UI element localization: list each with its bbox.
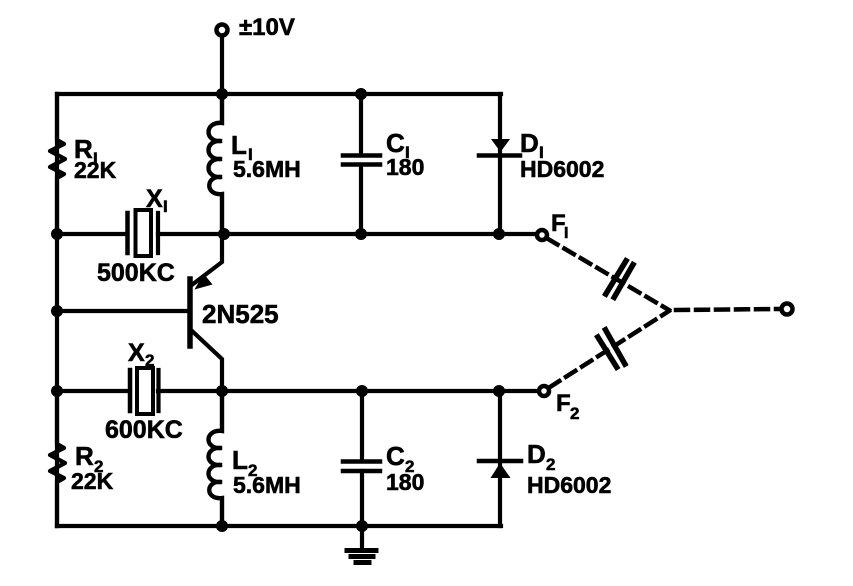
node C2 top <box>356 385 368 397</box>
transistor Q1 2N525 <box>190 234 222 391</box>
emitter lead <box>193 234 222 284</box>
node rail/F2 <box>51 385 63 397</box>
inductor L1 <box>209 94 223 234</box>
wire top rail <box>57 92 501 96</box>
wire dashed F2 to junction <box>550 311 669 387</box>
svg-text:2: 2 <box>145 351 154 370</box>
resistor R1 <box>50 94 65 234</box>
svg-text:2N525: 2N525 <box>202 299 279 329</box>
svg-text:22K: 22K <box>74 157 117 183</box>
node rail/F1 <box>51 228 63 240</box>
svg-text:±10V: ±10V <box>239 14 295 41</box>
wire F2 line right of X2 <box>158 389 538 393</box>
svg-text:600KC: 600KC <box>105 416 183 444</box>
svg-text:2: 2 <box>570 404 579 423</box>
diode D2 <box>479 391 521 526</box>
svg-text:5.6MH: 5.6MH <box>233 472 301 498</box>
terminal output <box>782 304 793 315</box>
resistor R2 <box>50 391 65 526</box>
inductor L2 <box>209 391 223 526</box>
svg-text:22K: 22K <box>71 468 114 494</box>
wire dashed F1 to junction <box>548 239 669 310</box>
node L1 bottom/emitter <box>218 228 230 240</box>
crystal X2 <box>130 368 159 414</box>
node D1 bottom <box>493 228 505 240</box>
ground <box>347 526 376 563</box>
terminal F1 <box>537 230 547 240</box>
svg-text:HD6002: HD6002 <box>527 472 611 498</box>
capacitor C2 <box>343 391 380 526</box>
wire dashed junction to output <box>676 309 780 310</box>
capacitor (slash symbol) upper <box>606 261 633 298</box>
svg-text:180: 180 <box>386 469 424 495</box>
wire left rail <box>55 94 59 526</box>
capacitor (slash symbol) lower <box>598 330 625 367</box>
terminal F2 <box>539 386 549 396</box>
svg-text:D: D <box>527 439 546 469</box>
node C1 bottom <box>355 228 367 240</box>
crystal X1 <box>128 210 159 256</box>
power terminal ±10V <box>217 25 228 36</box>
svg-text:500KC: 500KC <box>97 259 175 287</box>
diode D1 <box>479 94 520 234</box>
wire supply drop <box>220 36 224 94</box>
svg-text:F: F <box>556 390 571 417</box>
collector lead <box>191 330 222 391</box>
node collector/F2 <box>216 385 228 397</box>
svg-text:I: I <box>564 225 568 242</box>
base bar <box>187 279 193 346</box>
node ground <box>356 520 368 532</box>
node C1 top <box>355 88 367 100</box>
svg-text:X: X <box>128 339 145 367</box>
capacitor C1 <box>343 94 380 234</box>
svg-text:5.6MH: 5.6MH <box>233 156 301 182</box>
node L2 bottom <box>216 520 228 532</box>
wire base line <box>57 309 188 313</box>
svg-text:180: 180 <box>386 154 424 180</box>
node supply/L1 top <box>216 88 228 100</box>
emitter arrow <box>195 274 213 290</box>
node rail/base <box>51 305 63 317</box>
wire F1 line right of X1 <box>158 232 536 236</box>
wire F1 line <box>57 232 127 236</box>
svg-text:D: D <box>520 128 539 158</box>
svg-text:X: X <box>146 185 163 213</box>
node D2 top <box>493 385 505 397</box>
wire F2 line <box>57 389 130 393</box>
svg-text:HD6002: HD6002 <box>520 156 604 182</box>
svg-text:R: R <box>75 441 94 471</box>
svg-text:I: I <box>163 197 168 216</box>
wire bottom rail <box>57 524 501 528</box>
svg-text:L: L <box>232 445 248 475</box>
svg-text:C: C <box>386 441 405 471</box>
